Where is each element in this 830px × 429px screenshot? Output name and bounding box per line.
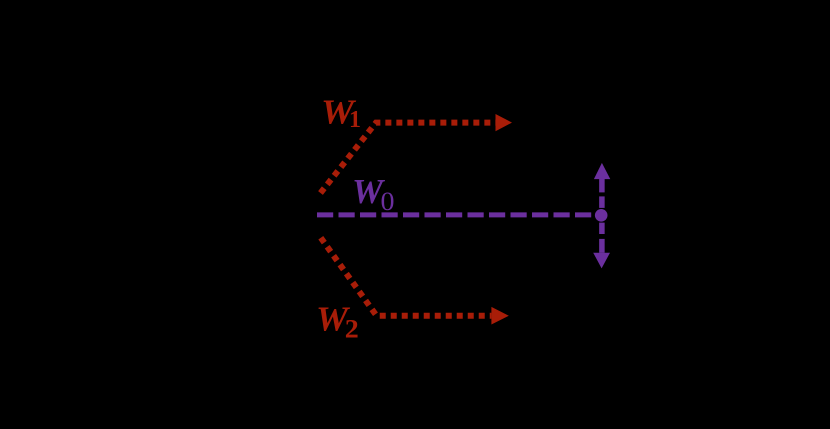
scan-range arrow: bottom arrowhead	[593, 253, 610, 269]
svg-text:0: 0	[381, 187, 395, 216]
scan-range arrow: bottom solid stem	[599, 239, 605, 253]
junction dot where W0 meets scan arrow	[595, 209, 608, 222]
wave W1 arrowhead	[496, 114, 513, 131]
wave W2 arrowhead	[491, 307, 508, 325]
scan-range arrow: lower dash	[599, 223, 605, 234]
wave W2 dotted beam (diagonal then horizontal wire)	[321, 238, 492, 316]
wave W0 dashed beam wire	[317, 212, 591, 217]
scan-range vertical double arrow: top arrowhead	[594, 163, 610, 179]
svg-text:2: 2	[345, 315, 359, 344]
wave W1 dotted beam (diagonal then horizontal wire)	[321, 123, 496, 193]
scan-range arrow: top solid stem	[599, 179, 605, 192]
svg-text:1: 1	[349, 107, 361, 133]
scan-range arrow: upper dash	[599, 196, 605, 208]
